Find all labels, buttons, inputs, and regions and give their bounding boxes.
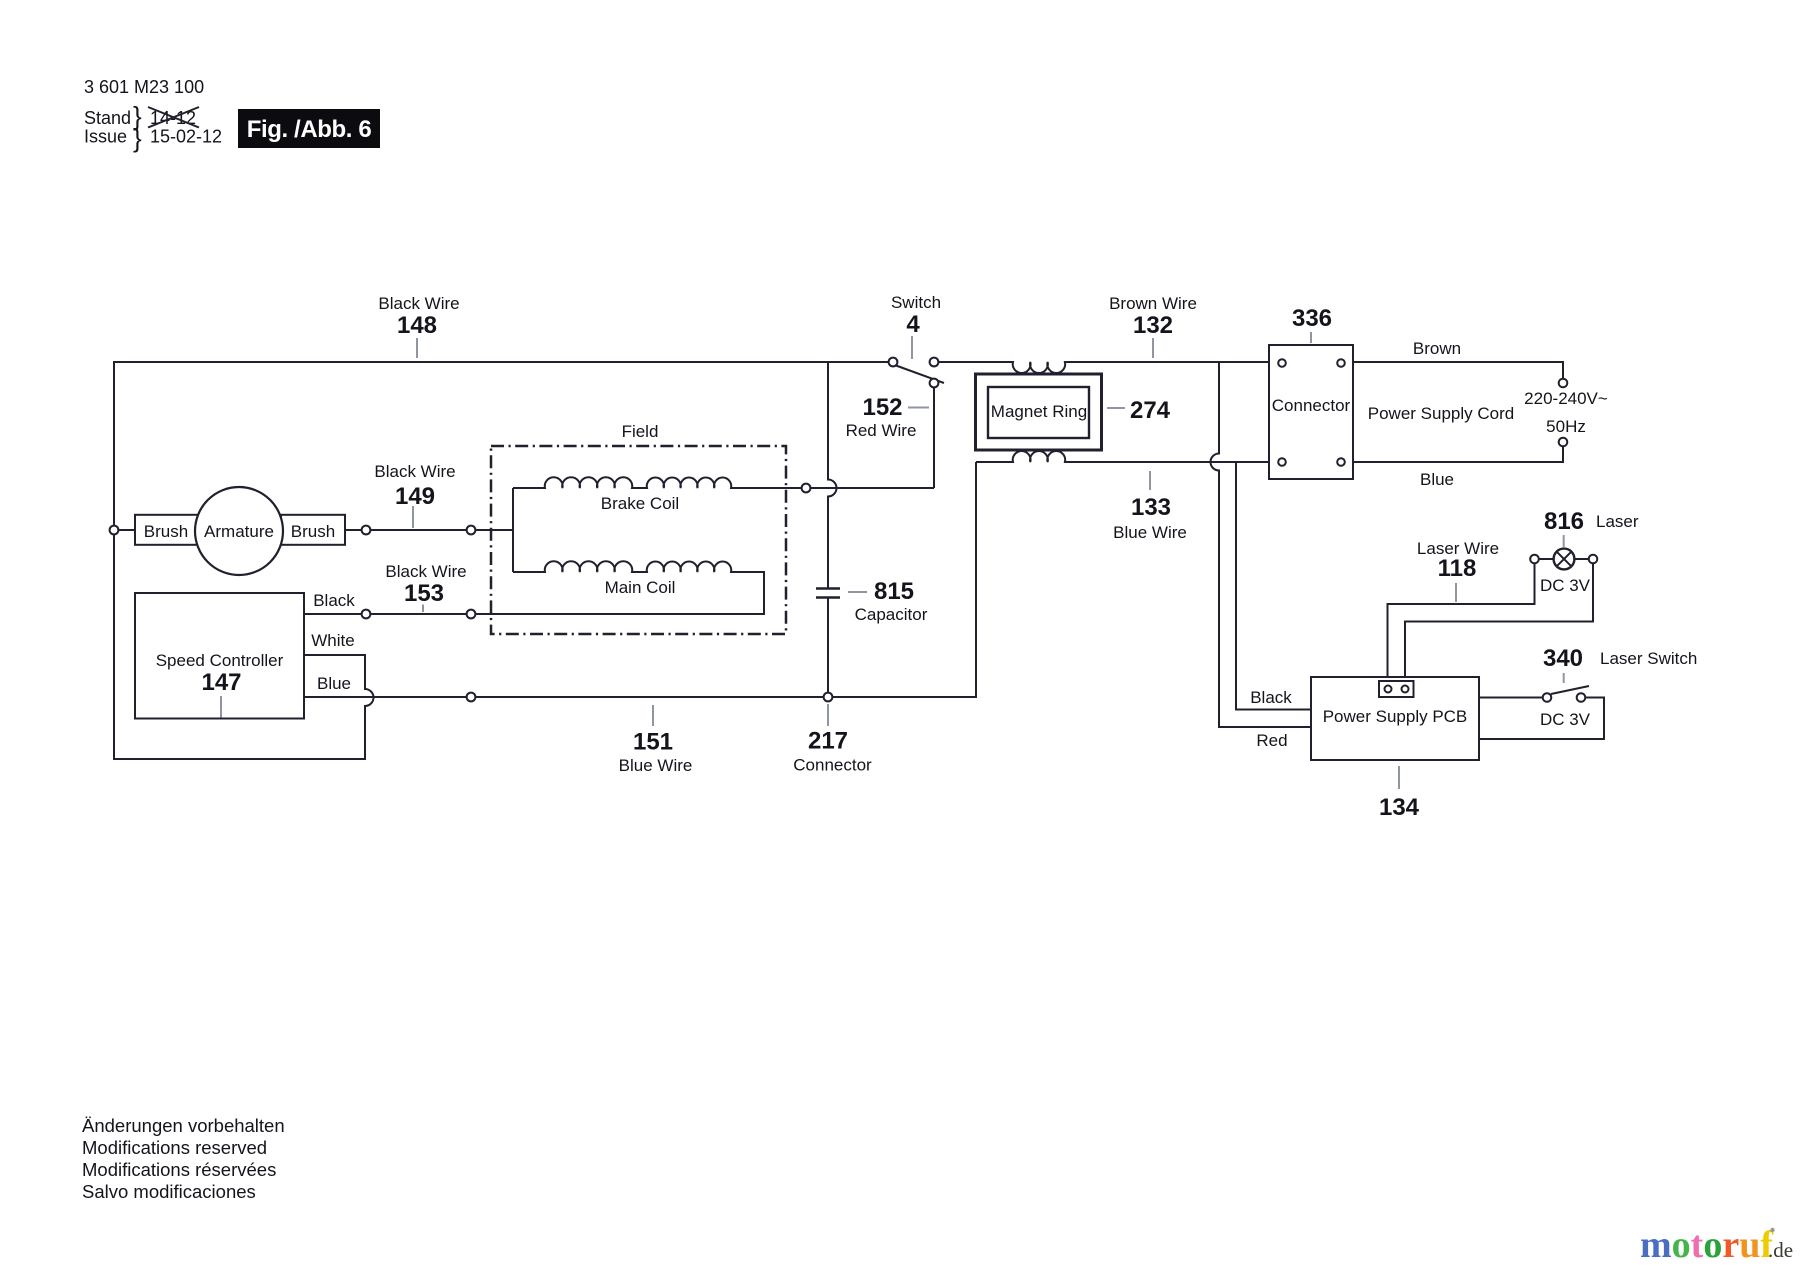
- svg-text:Salvo modificaciones: Salvo modificaciones: [82, 1181, 256, 1202]
- svg-text:DC 3V: DC 3V: [1540, 710, 1591, 729]
- svg-text:Black Wire: Black Wire: [378, 294, 459, 313]
- svg-text:Blue: Blue: [1420, 470, 1454, 489]
- svg-text:Power Supply Cord: Power Supply Cord: [1368, 404, 1514, 423]
- svg-text:Modifications réservées: Modifications réservées: [82, 1159, 276, 1180]
- svg-text:Armature: Armature: [204, 522, 274, 541]
- svg-text:153: 153: [404, 580, 444, 607]
- svg-text:Connector: Connector: [1272, 396, 1351, 415]
- svg-text:Stand: Stand: [84, 108, 131, 128]
- svg-text:50Hz: 50Hz: [1546, 417, 1586, 436]
- svg-text:Brush: Brush: [144, 522, 188, 541]
- svg-text:Connector: Connector: [793, 756, 872, 775]
- svg-text:Änderungen vorbehalten: Änderungen vorbehalten: [82, 1115, 285, 1136]
- svg-text:132: 132: [1133, 312, 1173, 339]
- svg-text:motoruf: motoruf: [1640, 1224, 1774, 1266]
- svg-text:Black: Black: [1250, 688, 1292, 707]
- svg-text:Power Supply PCB: Power Supply PCB: [1323, 707, 1468, 726]
- svg-text:Switch: Switch: [891, 293, 941, 312]
- svg-text:4: 4: [906, 311, 920, 338]
- svg-text:816: 816: [1544, 508, 1584, 535]
- svg-text:Blue: Blue: [317, 674, 351, 693]
- svg-text:152: 152: [862, 394, 902, 421]
- svg-text:3 601 M23 100: 3 601 M23 100: [84, 77, 204, 97]
- svg-text:Black Wire: Black Wire: [374, 462, 455, 481]
- svg-text:220-240V~: 220-240V~: [1524, 389, 1608, 408]
- svg-text:148: 148: [397, 312, 437, 339]
- svg-text:Brush: Brush: [291, 522, 335, 541]
- svg-text:White: White: [311, 631, 354, 650]
- svg-text:Black Wire: Black Wire: [385, 562, 466, 581]
- svg-text:Modifications reserved: Modifications reserved: [82, 1137, 267, 1158]
- svg-text:217: 217: [808, 728, 848, 755]
- svg-text:Speed Controller: Speed Controller: [156, 651, 284, 670]
- svg-text:Main Coil: Main Coil: [605, 578, 676, 597]
- svg-text:147: 147: [201, 669, 241, 696]
- svg-text:Brown: Brown: [1413, 339, 1461, 358]
- svg-text:118: 118: [1438, 555, 1477, 582]
- svg-text:Magnet Ring: Magnet Ring: [991, 402, 1087, 421]
- svg-text:Field: Field: [622, 422, 659, 441]
- svg-text:Black: Black: [313, 591, 355, 610]
- svg-text:133: 133: [1131, 494, 1171, 521]
- svg-text:DC 3V: DC 3V: [1540, 576, 1591, 595]
- svg-text:Laser Switch: Laser Switch: [1600, 649, 1697, 668]
- svg-text:Fig. /Abb. 6: Fig. /Abb. 6: [247, 116, 372, 143]
- svg-text:15-02-12: 15-02-12: [150, 127, 222, 147]
- svg-text:Laser: Laser: [1596, 512, 1639, 531]
- svg-text:336: 336: [1292, 305, 1332, 332]
- svg-text:Red Wire: Red Wire: [846, 421, 917, 440]
- svg-text:Capacitor: Capacitor: [855, 605, 928, 624]
- svg-text:Brake Coil: Brake Coil: [601, 494, 679, 513]
- svg-text:Issue: Issue: [84, 127, 127, 147]
- svg-text:}: }: [133, 123, 142, 153]
- svg-text:134: 134: [1379, 794, 1420, 821]
- svg-text:274: 274: [1130, 397, 1171, 424]
- svg-text:Blue Wire: Blue Wire: [1113, 523, 1187, 542]
- svg-text:340: 340: [1543, 645, 1583, 672]
- svg-text:151: 151: [633, 729, 673, 756]
- svg-text:149: 149: [395, 483, 435, 510]
- svg-text:.de: .de: [1768, 1238, 1793, 1262]
- svg-text:Red: Red: [1256, 731, 1287, 750]
- svg-text:Blue Wire: Blue Wire: [619, 756, 693, 775]
- svg-text:815: 815: [874, 578, 914, 605]
- svg-text:Brown Wire: Brown Wire: [1109, 294, 1197, 313]
